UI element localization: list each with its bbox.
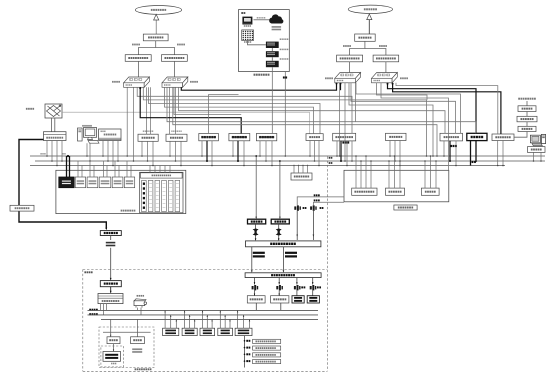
wire: KVM boxes to switches left — [139, 61, 175, 79]
node: central equipment panel outer — [56, 170, 186, 213]
node: room terminal box C (bold) — [103, 352, 121, 365]
icon: WAN cloud (black) — [269, 14, 283, 30]
wire: gray elbow R2 c — [396, 83, 498, 134]
node: cabling box 1 — [138, 130, 158, 141]
wire: AV bus line 1 — [88, 309, 319, 311]
legend row 3 — [244, 353, 281, 357]
switch L1 — [124, 77, 150, 87]
label: fiber note 2 — [285, 252, 297, 258]
node: platform server box — [352, 188, 377, 195]
node: VPN encryptor 2 — [271, 219, 289, 224]
node: AV device box 5 — [235, 328, 252, 335]
wire — [526, 122, 528, 127]
node: control keyboard box — [518, 126, 536, 131]
wire: firewall to server column — [248, 41, 266, 45]
wire: main bus line 2 — [35, 160, 545, 162]
node: room device box A — [107, 337, 120, 344]
node: fiber patch panel — [140, 172, 183, 213]
wire: down arrow to conference box 2 — [110, 236, 112, 281]
wire: satellite long horizontal to receiver box — [62, 112, 310, 133]
wire: bold cross link L2 to R1 — [181, 83, 341, 91]
label 1000m — [190, 81, 198, 83]
switch L2 — [162, 77, 188, 87]
legend row 1 — [244, 339, 281, 343]
legend row 2 — [244, 346, 281, 350]
icon: video server (black) — [242, 17, 252, 27]
label 100m — [325, 77, 333, 79]
wire: right hub to KVM boxes — [350, 41, 386, 55]
label 1000m left — [177, 44, 185, 46]
node: right hub box — [355, 34, 376, 41]
wire: bar2 downward drops — [254, 278, 314, 285]
node: left KVM extender TX box 1 — [125, 55, 151, 62]
wire: to right switches — [350, 62, 386, 75]
wire: auth box drops — [293, 165, 308, 173]
node: NVR storage box 1 (bold) — [292, 296, 304, 303]
wire: long drop to VPN 1 — [255, 155, 257, 219]
label: boundary net labels — [329, 157, 333, 164]
wire: AV bus line 3 — [101, 318, 318, 320]
node: central room label box — [10, 205, 34, 211]
wire: demo box column drop — [271, 67, 273, 133]
wire: gray long rect route upper right — [355, 83, 357, 122]
label: RGB cable bus label — [89, 309, 98, 311]
node: right KVM TX box 1 — [337, 55, 363, 62]
icon: satellite antenna — [45, 104, 62, 118]
wire: gray elbow R1 f — [349, 83, 434, 157]
icon: streaming server 1 (black) — [266, 38, 288, 48]
legend row 4 — [244, 360, 281, 364]
node: fiber transceiver box — [518, 106, 536, 112]
wire: main bus line 3 — [30, 165, 505, 167]
node: MCU box (bold) — [199, 134, 219, 141]
node: AV device box 2 — [182, 328, 197, 335]
wire: L1 drop to cabling box1 — [146, 87, 150, 134]
node: conference terminal box A — [247, 296, 265, 303]
wire: server to cloud link — [254, 17, 270, 20]
node: room device box B — [131, 337, 145, 344]
node: phase-1 workstation label box — [528, 147, 546, 153]
wire: A to C — [113, 344, 114, 352]
switch R1 — [335, 73, 361, 83]
icon: streaming server 3 (black) — [266, 58, 288, 67]
icon: fiber transceiver tick 1 — [294, 205, 306, 240]
switch R2 — [372, 73, 398, 83]
wire: bundle elbow 3 — [149, 87, 321, 133]
node: AV device box 3 — [200, 328, 215, 335]
node: conference terminal bold box right — [467, 133, 487, 140]
wire: matrix and projector to AV bus — [101, 304, 142, 315]
node: panel device box 6 — [124, 177, 134, 188]
wire: long drop to VPN 2 — [279, 160, 281, 219]
icon: tick module 2 below bar2 — [276, 285, 283, 296]
wire: drops to AV device box 4 — [220, 310, 231, 328]
label: to county users — [518, 98, 536, 100]
wire: R1 straight drops — [339, 83, 346, 162]
node: auth server box — [291, 173, 312, 180]
node: existing device box 1 — [333, 133, 356, 143]
label 1000m right2 — [400, 77, 408, 79]
node: operator console box — [99, 129, 121, 141]
icon: encryption module 2 — [276, 224, 282, 241]
wire: bundle elbow 4 — [165, 87, 314, 133]
node: existing device box 2 — [440, 133, 463, 147]
node: KVM extender RX box — [492, 134, 514, 141]
wire: gray elbow left extra — [174, 87, 241, 114]
wire: gray elbow R2 a — [377, 83, 428, 100]
icon: fiber transceiver tick 2 — [310, 205, 323, 240]
node: demo server box (bold) — [256, 134, 276, 141]
label UTP — [62, 153, 65, 155]
icon: management workstation — [78, 125, 100, 143]
node: conference terminal box (bold) — [229, 134, 250, 141]
wire: left uplink arrow — [154, 14, 159, 34]
wire: long gray route y121.7 — [167, 87, 476, 133]
node: aggregation switch bar 1 — [246, 241, 321, 247]
wire: right uplink arrow — [367, 14, 372, 34]
node: panel device black box — [59, 177, 74, 188]
wire: bold route receiver to conference area — [19, 140, 107, 231]
label satellite — [26, 108, 34, 110]
wire: bundle elbow 5 — [179, 87, 446, 133]
node: right uplink cloud ellipse — [348, 5, 392, 13]
label 200m — [112, 81, 120, 83]
label 1000m right — [379, 45, 387, 47]
label zone title — [241, 12, 245, 14]
wire: long gray route y124.7 — [173, 87, 438, 157]
node: NVR storage box 2 (bold) — [307, 296, 319, 303]
node: cabling box 2 — [166, 130, 187, 141]
node: receiver box mid — [306, 134, 323, 141]
wire: main bus line 1 — [30, 155, 545, 157]
wire: drops to AV device box 2 — [184, 310, 195, 328]
wire: drops to AV device box 3 — [202, 310, 213, 328]
wire: gray elbow R2 b — [381, 83, 448, 171]
node: video net label box — [394, 205, 417, 210]
icon: projector — [134, 295, 147, 308]
node: VPN encryptor 1 — [248, 219, 266, 224]
node: panel device box 2 — [75, 177, 85, 188]
label: video line bus label — [89, 313, 98, 315]
node: panel device box 4 — [99, 177, 111, 188]
wire: bold pair into panel black box — [67, 155, 70, 177]
node: panel device box 5 — [112, 177, 123, 188]
wire: keyboard to KVM RX — [514, 132, 527, 138]
label: AV cable note — [106, 242, 116, 247]
icon: tick module 4 with label — [310, 285, 321, 296]
boundary: inner existing dashed box — [101, 346, 124, 367]
icon: tick module 1 below bar2 — [252, 285, 259, 296]
node: AV device box 4 — [218, 328, 233, 335]
icon: tick module 3 with label — [294, 285, 305, 296]
wire: L2 drops to cabling box2 — [169, 87, 175, 134]
boundary: conference room dashed box — [99, 327, 154, 370]
node: video conference box 1 — [100, 231, 121, 236]
icon: encryption module 1 — [253, 224, 259, 241]
wire: bold elbow R2 to KVM RX — [392, 83, 501, 134]
node: satellite receiver box — [44, 132, 67, 141]
wire — [526, 101, 528, 116]
node: phase-1 device box — [386, 133, 407, 140]
node: video conference box 2 — [100, 281, 121, 287]
label: existing note under B — [132, 348, 142, 352]
node: decoder box — [517, 116, 537, 122]
wire: bundle elbow 1 — [137, 87, 352, 133]
wire: panel drops — [78, 161, 170, 177]
node: media forward box — [421, 188, 439, 195]
wire: legend stem — [244, 336, 246, 368]
node: video matrix box — [98, 294, 123, 304]
icon: firewall (hatched) — [242, 30, 254, 43]
node: video net zone box — [344, 170, 449, 202]
wire: drops to AV device box 5 — [237, 310, 250, 328]
boundary: conference area dashed box — [83, 270, 327, 372]
node: panel device box 3 — [87, 177, 98, 188]
label: server zone caption — [254, 74, 270, 76]
wire: demo box right drop with label — [283, 72, 287, 157]
node: conference net switch bar 2 — [245, 273, 321, 278]
wire: gray elbow R1 d — [351, 83, 456, 134]
wire: drops to AV device box 1 — [164, 310, 177, 328]
node: left KVM extender TX box 2 — [162, 55, 188, 62]
wire: server column vertical — [271, 48, 273, 61]
wire: gigabit link 1 from video net — [297, 194, 344, 205]
wire: AV bus line 2 — [88, 314, 319, 316]
label RG-6 — [40, 153, 45, 155]
wire: left switch L1 straight drops — [126, 87, 134, 162]
node: left uplink cloud ellipse — [135, 5, 181, 14]
wire: bus drop lines — [46, 141, 542, 167]
label: fiber note 1 — [253, 252, 265, 258]
node: server zone outer box — [239, 10, 290, 72]
wire: gigabit link 2 — [313, 199, 344, 205]
icon: streaming server 2 (black) — [266, 49, 288, 58]
wire: elbow into MCU left — [209, 95, 239, 134]
boundary: dashed vertical police net — [326, 157, 328, 372]
label 100m right — [343, 45, 351, 47]
icon: phase-1 workstation computer — [530, 134, 545, 145]
wire: bar1 to bar2 drops — [251, 247, 284, 273]
wire: room bus — [103, 319, 151, 336]
label 300m left — [132, 44, 140, 46]
wire: bold elbow R2 to terminal bold box — [387, 83, 477, 134]
wire: gray elbow R1 e — [356, 83, 461, 134]
node: left hub/router box — [143, 34, 168, 41]
wire: hub to KVM boxes left — [139, 41, 175, 55]
wire: terminal boxes to AV bus — [256, 303, 281, 310]
wire: drops into video net boxes — [355, 155, 437, 188]
node: conference terminal box B — [271, 296, 289, 303]
node: right KVM TX box 2 — [373, 55, 399, 62]
wire: conf2 to matrix — [110, 287, 112, 294]
node: storage mgmt box — [386, 188, 405, 195]
wire: bold drops conference terminal box right — [471, 141, 477, 166]
wire: bold elbow to MCU — [139, 87, 241, 133]
node: AV device box 1 — [163, 328, 179, 335]
wire: bundle elbow 2 — [143, 87, 427, 157]
wire: satellite downlink pair — [52, 118, 55, 132]
